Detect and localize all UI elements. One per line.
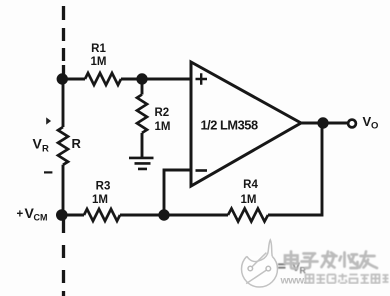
wire inverting input feedback [164, 170, 191, 215]
resistor R4 [228, 209, 268, 222]
watermark logo link line upper [252, 253, 266, 267]
terminal VO open circle [348, 120, 356, 128]
node output junction [317, 117, 328, 128]
wire bottom rail middle [120, 214, 228, 217]
svg-text:R3: R3 [96, 181, 111, 193]
svg-text:V: V [33, 136, 43, 152]
label +VCM [17, 205, 48, 223]
resistor R [58, 127, 68, 165]
node +VCM junction [56, 209, 68, 221]
glyph you [360, 252, 378, 269]
node junction R2 tap [136, 73, 147, 84]
label R1 value [91, 43, 107, 68]
wire VR branch lower [62, 165, 65, 215]
label R2 value [155, 107, 171, 133]
label VR polarity minus [44, 171, 52, 173]
glyph shao [340, 253, 358, 269]
svg-text:R2: R2 [155, 107, 170, 119]
svg-text:R: R [72, 136, 82, 151]
svg-text:O: O [371, 121, 378, 132]
resistor R3 [84, 209, 120, 221]
wire dashed common-mode line bottom [62, 215, 65, 296]
watermark logo link line lower [246, 270, 266, 283]
resistor R1 [85, 73, 121, 85]
watermark logo node circle right [266, 266, 271, 271]
svg-text:R1: R1 [91, 43, 106, 55]
ground [129, 158, 154, 169]
label equation equals [278, 263, 286, 268]
wire VR branch upper [62, 79, 65, 127]
wire R2 branch upper [141, 79, 144, 95]
svg-text:1M: 1M [155, 121, 171, 133]
label R4 value [241, 179, 259, 206]
watermark logo circle [242, 240, 278, 287]
svg-text:+: + [17, 209, 24, 221]
node A junction (top left) [57, 73, 68, 84]
watermark text row 1 (stylized grey hanzi strokes) [285, 252, 377, 269]
watermark text row 2 (stylized grey hanzi strokes) [306, 274, 389, 284]
svg-text:CM: CM [34, 213, 48, 223]
label equation VR [292, 260, 307, 276]
svg-text:1M: 1M [241, 194, 257, 206]
label VR source [33, 136, 50, 155]
svg-text:www.: www. [280, 275, 307, 287]
glyph dian [285, 252, 298, 269]
svg-text:1M: 1M [92, 194, 108, 206]
svg-text:1/2 LM358: 1/2 LM358 [201, 118, 258, 133]
glyph zi [302, 254, 318, 269]
wire top rail: node A to op-amp +input [63, 78, 191, 81]
wire dashed common-mode line top [62, 6, 65, 79]
glyph fa [322, 252, 337, 268]
label op-amp noninverting plus [196, 73, 208, 85]
label R3 value [92, 181, 110, 207]
svg-text:1M: 1M [91, 56, 107, 68]
label VR polarity arrow [46, 117, 51, 124]
wire bottom rail right and right vertical feedback [268, 123, 322, 215]
node inverting junction [158, 209, 169, 220]
resistor R2 [137, 95, 147, 133]
label VO [363, 114, 379, 132]
op-amp U1 1/2 LM358 [191, 62, 301, 186]
svg-text:R4: R4 [243, 179, 258, 191]
watermark logo flame curl [247, 240, 272, 262]
watermark logo node circle left [248, 266, 253, 271]
wire R2 to ground [141, 133, 144, 157]
svg-text:R: R [42, 144, 49, 155]
wire bottom rail left [63, 214, 84, 217]
label op-amp inverting minus [196, 169, 208, 172]
wire op-amp output [301, 122, 347, 125]
